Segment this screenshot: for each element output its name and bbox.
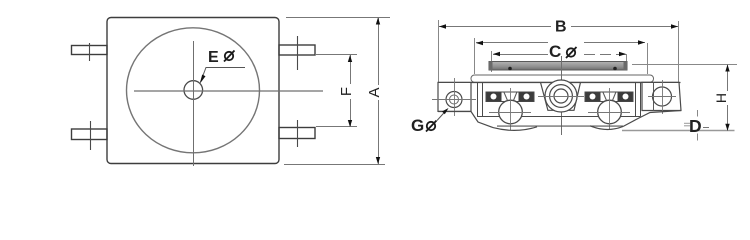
- H arrow bottom: [725, 124, 729, 131]
- D dimension line above label: [697, 110, 699, 117]
- svg-text:F: F: [338, 87, 355, 96]
- C2 arrow right: [619, 52, 626, 56]
- frame right wall lines: [635, 83, 637, 117]
- left wheel crosshair h: [489, 112, 531, 114]
- right axle bolt bar: [585, 92, 633, 102]
- left bracket crosshair h: [432, 99, 476, 101]
- F arrow bottom: [348, 120, 352, 127]
- tab bottom-right tick: [297, 120, 299, 147]
- wheel tangent reference line right of wheel: [622, 130, 735, 132]
- turntable big circle: [127, 28, 260, 153]
- H arrow top: [725, 65, 729, 72]
- left bolt circle left: [491, 94, 497, 100]
- upper plate right end cap: [624, 62, 628, 71]
- tab top-left: [72, 46, 108, 55]
- svg-text:E: E: [208, 49, 219, 66]
- horizontal centerline: [134, 90, 323, 92]
- top turntable plate (gray): [489, 62, 627, 71]
- A arrow bottom: [376, 157, 380, 164]
- left axle bolt bar: [486, 92, 534, 102]
- svg-text:A: A: [366, 87, 383, 97]
- svg-text:D: D: [689, 116, 702, 136]
- svg-text:B: B: [555, 19, 567, 36]
- left bracket crosshair v: [454, 78, 456, 116]
- B dimension line: [439, 26, 551, 28]
- svg-text:C: C: [549, 42, 561, 61]
- right wheel bottom arc: [590, 126, 623, 130]
- bolt dot right on plate: [613, 67, 617, 71]
- label E phi symbol: [224, 51, 235, 62]
- C2 dashes: [584, 54, 626, 56]
- right wheel hub circle: [598, 100, 622, 124]
- swivel housing trapezoid: [541, 82, 581, 110]
- left wheel hub circle: [499, 100, 523, 124]
- tab top-right tick: [297, 36, 299, 70]
- C1 arrow right: [638, 40, 645, 44]
- label G phi symbol: [426, 121, 437, 132]
- B arrow left: [439, 24, 446, 28]
- tab bottom-right: [279, 128, 315, 139]
- frame left wall lines: [477, 83, 479, 117]
- F dimension extension bottom: [316, 126, 357, 128]
- tab bottom-left tick: [90, 121, 92, 150]
- right bolt circle right: [623, 94, 629, 100]
- left saddle notch: [504, 92, 517, 101]
- C1 extension right: [647, 43, 649, 74]
- svg-text:H: H: [713, 93, 729, 103]
- left wheel bottom arc: [493, 127, 537, 131]
- leader G arrow: [437, 110, 447, 121]
- right bracket crosshair v: [662, 80, 664, 114]
- tab bottom-left: [72, 129, 108, 140]
- D leader dash: [703, 127, 709, 129]
- right bracket crosshair h: [648, 96, 676, 98]
- base ring plate: [471, 75, 654, 82]
- right bracket hole: [653, 87, 672, 106]
- C2 dimension line (top plate): [493, 54, 548, 56]
- right bolt circle left: [590, 94, 596, 100]
- swivel crosshair horizontal: [538, 96, 584, 98]
- frame inner bottom line: [477, 116, 640, 118]
- B extension right: [678, 21, 680, 82]
- right axle pad left (dark): [586, 92, 601, 101]
- frame bottom chord line: [497, 125, 623, 127]
- swivel bearing middle circle: [550, 85, 573, 108]
- right wheel crosshair h: [588, 112, 630, 114]
- B arrow right: [671, 24, 678, 28]
- F dimension line: [350, 55, 352, 84]
- A dimension extension top: [286, 17, 390, 19]
- H dimension line: [727, 65, 729, 92]
- base plate square: [107, 18, 279, 164]
- right saddle notch: [603, 92, 616, 101]
- C2 extension right: [626, 54, 628, 66]
- left bracket hole outer: [446, 92, 462, 108]
- left bolt circle right: [524, 94, 530, 100]
- swivel bearing inner circle: [554, 89, 568, 103]
- D dimension line below label: [697, 134, 699, 141]
- left axle pad right (dark): [519, 92, 534, 101]
- F arrow top: [348, 55, 352, 62]
- B extension left: [438, 20, 440, 82]
- C1 arrow left: [476, 41, 483, 45]
- vertical centerline: [193, 41, 195, 166]
- upper plate left end cap: [489, 62, 493, 71]
- C1 extension left: [474, 38, 476, 74]
- frame bottom outline right slant: [623, 111, 681, 127]
- A dimension line: [378, 18, 380, 86]
- frame top line: [438, 82, 681, 84]
- left end bracket: [438, 82, 471, 111]
- frame bottom outline left slant: [438, 112, 493, 128]
- left bracket hole inner: [450, 95, 459, 104]
- swivel bearing outer circle: [545, 80, 577, 112]
- left axle pad left (dark): [487, 92, 502, 101]
- C2 arrow left: [493, 52, 500, 56]
- left wheel crosshair v: [510, 88, 512, 130]
- tab top-right: [279, 45, 315, 55]
- C2 extension left: [491, 51, 493, 72]
- right wheel crosshair v: [609, 88, 611, 130]
- right axle pad right (dark): [618, 92, 633, 101]
- frame bottom line ends left of D: [684, 122, 690, 124]
- bolt dot left on plate: [508, 67, 512, 71]
- C1 dimension line (base ring): [476, 42, 548, 44]
- label C phi symbol: [566, 47, 577, 58]
- svg-text:G: G: [411, 116, 424, 135]
- H extension top: [632, 64, 737, 66]
- F dimension extension top: [316, 54, 357, 56]
- leader line for E: [201, 68, 246, 83]
- tab top-left tick: [89, 43, 91, 61]
- A arrow top: [376, 18, 380, 25]
- swivel center vertical line: [561, 56, 563, 135]
- A dimension extension bottom: [284, 164, 385, 166]
- right end bracket: [642, 82, 681, 110]
- center hole circle (E): [184, 81, 203, 100]
- right bracket fold line: [653, 83, 655, 111]
- leader arrowhead E: [200, 75, 206, 84]
